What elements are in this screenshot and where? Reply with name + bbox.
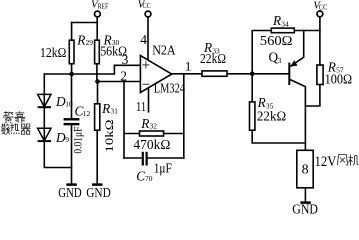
svg-text:2: 2: [120, 69, 127, 84]
svg-text:12kΩ: 12kΩ: [40, 45, 66, 60]
svg-text:R: R: [101, 101, 110, 116]
svg-text:GND: GND: [86, 185, 111, 200]
svg-text:0.01μF: 0.01μF: [72, 127, 84, 154]
svg-text:11: 11: [136, 99, 146, 114]
svg-text:REF: REF: [98, 3, 109, 10]
svg-text:8: 8: [302, 163, 309, 178]
svg-text:3: 3: [278, 56, 282, 65]
svg-text:R: R: [140, 116, 149, 131]
svg-text:C: C: [136, 169, 145, 184]
svg-text:100Ω: 100Ω: [325, 71, 353, 86]
svg-text:CC: CC: [143, 3, 152, 10]
svg-text:22kΩ: 22kΩ: [200, 51, 226, 66]
svg-text:10: 10: [65, 100, 73, 109]
svg-text:LM324: LM324: [154, 80, 185, 95]
svg-text:10kΩ: 10kΩ: [104, 120, 116, 153]
svg-text:GND: GND: [292, 202, 318, 214]
svg-text:R: R: [272, 13, 281, 28]
svg-text:3: 3: [122, 52, 129, 67]
svg-text:29: 29: [86, 38, 94, 47]
svg-text:32: 32: [150, 122, 158, 131]
svg-text:GND: GND: [58, 185, 82, 200]
svg-text:34: 34: [281, 20, 289, 29]
svg-text:4: 4: [140, 32, 147, 47]
svg-text:22kΩ: 22kΩ: [257, 109, 286, 124]
svg-text:560Ω: 560Ω: [260, 33, 293, 48]
svg-text:N2A: N2A: [152, 44, 176, 59]
svg-text:70: 70: [145, 174, 153, 183]
svg-text:9: 9: [65, 135, 69, 144]
svg-text:CC: CC: [319, 4, 328, 11]
svg-text:31: 31: [110, 107, 118, 116]
svg-text:12V: 12V: [315, 154, 337, 170]
svg-text:12: 12: [83, 109, 91, 118]
svg-text:1: 1: [185, 59, 192, 74]
svg-text:R: R: [76, 32, 85, 47]
svg-text:1μF: 1μF: [154, 161, 172, 176]
svg-text:470kΩ: 470kΩ: [133, 137, 170, 152]
